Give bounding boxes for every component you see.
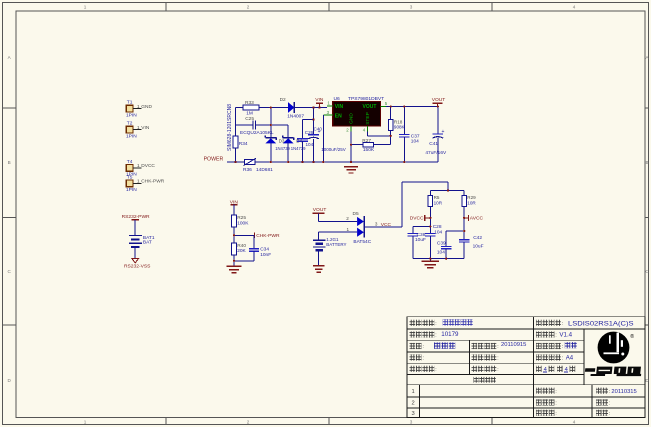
svg-text:1M: 1M: [246, 111, 253, 117]
svg-text::: :: [497, 356, 498, 362]
svg-text:3: 3: [410, 419, 413, 424]
svg-text:2: 2: [412, 401, 415, 407]
svg-text::: :: [435, 367, 436, 373]
svg-text:1: 1: [137, 104, 140, 109]
svg-text:B: B: [8, 160, 11, 165]
svg-text:VCC: VCC: [381, 222, 392, 228]
svg-text:150K: 150K: [363, 147, 375, 153]
ground: [422, 259, 439, 268]
svg-text:3: 3: [410, 4, 413, 9]
resistor R29 10R: [462, 191, 477, 207]
svg-text:VIN: VIN: [315, 97, 324, 103]
power port RS232-PWR: [122, 214, 150, 220]
pin 1: [327, 101, 333, 106]
diode D2: [280, 97, 305, 120]
svg-text:C: C: [8, 269, 12, 274]
battery BAT1: [129, 235, 155, 247]
svg-text:C42: C42: [473, 235, 482, 241]
svg-text:SIM628-1201SRCN8: SIM628-1201SRCN8: [227, 104, 233, 151]
ground: [227, 261, 242, 273]
wire: [134, 220, 136, 235]
svg-text:BAT: BAT: [143, 240, 152, 246]
svg-text:+: +: [442, 129, 445, 135]
svg-text::: :: [609, 411, 610, 417]
op-amp U6 TPS79801DBVT: [333, 96, 384, 126]
svg-text:1: 1: [137, 163, 140, 168]
capacitor C34 10nF: [249, 235, 271, 260]
battery G1 1.2G1 BATTERY: [313, 232, 346, 265]
node CHK-PWR: [254, 233, 280, 240]
power port VOUT lower: [313, 207, 327, 221]
svg-text:10179: 10179: [441, 331, 459, 338]
svg-text:CHK-PWR: CHK-PWR: [141, 179, 164, 185]
svg-text:104: 104: [306, 142, 314, 147]
svg-text:U6: U6: [334, 96, 341, 102]
svg-text:C38: C38: [417, 232, 426, 238]
svg-text:1: 1: [84, 419, 87, 424]
svg-text:R36: R36: [243, 167, 252, 173]
wire bottom rail dvcc: [413, 258, 464, 260]
svg-text:R40: R40: [237, 243, 246, 249]
wire EN to ground rail: [322, 115, 324, 162]
svg-text:GND: GND: [141, 104, 152, 110]
capacitor C26: [297, 120, 313, 163]
wire: [234, 227, 254, 243]
svg-text:A: A: [8, 55, 12, 60]
test point T4: [126, 159, 155, 178]
svg-text:C28: C28: [433, 224, 442, 230]
svg-text:1: 1: [137, 125, 140, 130]
svg-text:2: 2: [247, 4, 250, 9]
svg-text:1PIN: 1PIN: [126, 134, 137, 140]
svg-text::: :: [555, 401, 556, 407]
power port VIN lower: [230, 199, 239, 215]
svg-text:CHK-PWR: CHK-PWR: [256, 233, 280, 239]
svg-text:®: ®: [630, 333, 634, 340]
zener diode D3 1N4739: [265, 135, 290, 162]
svg-text:AVCC: AVCC: [470, 216, 484, 222]
node DVCC: [410, 206, 431, 233]
svg-text:104: 104: [434, 229, 442, 235]
svg-text:VIN: VIN: [141, 125, 150, 131]
svg-text:100K: 100K: [237, 220, 249, 226]
svg-text:C41: C41: [429, 141, 438, 147]
pin 3: [323, 110, 333, 115]
svg-text:POWER: POWER: [204, 156, 224, 162]
junction dots power section: [234, 105, 439, 163]
resistor R34: [233, 136, 248, 148]
svg-text:14D681: 14D681: [256, 167, 273, 173]
logo: [584, 332, 651, 377]
resistor R40 20K: [232, 243, 247, 255]
svg-text:1000uF/25V: 1000uF/25V: [321, 147, 346, 152]
svg-text::: :: [555, 411, 556, 417]
svg-text:VOUT: VOUT: [432, 97, 446, 103]
resistor R5 10R: [428, 191, 443, 207]
svg-text:10uF: 10uF: [415, 237, 426, 243]
wire pin1 of D5: [319, 227, 357, 232]
svg-text:1PIN: 1PIN: [126, 112, 137, 118]
svg-text:R25: R25: [237, 215, 246, 221]
svg-text::: :: [609, 389, 610, 395]
svg-text:C37: C37: [411, 133, 420, 139]
ground: [344, 167, 358, 173]
pin 4: [363, 126, 368, 133]
power port RS232-VSS: [124, 259, 151, 270]
wire: [234, 255, 254, 261]
svg-text:1PIN: 1PIN: [126, 187, 137, 193]
svg-text:+: +: [318, 129, 321, 135]
svg-text:TPS79801DBVT: TPS79801DBVT: [348, 96, 384, 102]
svg-text:STEP: STEP: [365, 112, 371, 125]
svg-text:4: 4: [573, 4, 576, 9]
svg-text::: :: [497, 367, 498, 373]
svg-text:10nF: 10nF: [260, 252, 271, 258]
svg-text:4: 4: [363, 128, 366, 133]
svg-text:VIN: VIN: [335, 104, 344, 110]
svg-text:A4: A4: [566, 356, 574, 362]
diode D5 BAT54C: [353, 211, 372, 245]
svg-text::: :: [609, 401, 610, 407]
svg-text:D5: D5: [353, 211, 359, 217]
svg-text:104: 104: [437, 249, 445, 255]
pin 2: [346, 126, 351, 133]
svg-text:BATTERY: BATTERY: [326, 242, 346, 247]
label ECQU2A105KL: [240, 130, 274, 136]
power port VOUT: [432, 97, 446, 107]
svg-text::: :: [423, 356, 424, 362]
svg-text:LSDIS02RS1A(C)S: LSDIS02RS1A(C)S: [568, 320, 634, 327]
pin 5: [380, 101, 387, 106]
svg-text:10uF: 10uF: [473, 244, 484, 250]
ground: [313, 266, 324, 272]
node AVCC: [464, 206, 483, 239]
power port POWER: [204, 156, 224, 162]
wire pin3 VCC: [364, 182, 448, 228]
svg-text:R34: R34: [239, 141, 248, 147]
svg-text:2: 2: [247, 419, 250, 424]
wire pin2 of D5: [319, 216, 358, 221]
wire VOUT rail: [386, 106, 438, 108]
title block text: [410, 319, 637, 417]
resistor R18 908K: [388, 107, 405, 131]
svg-text::: :: [562, 321, 563, 327]
svg-text::: :: [497, 344, 498, 350]
junction dots divider: [233, 234, 235, 262]
test point T5: [126, 174, 165, 193]
svg-text:GND: GND: [348, 113, 354, 124]
svg-text:20110915: 20110915: [501, 342, 526, 348]
transformer module SIM628-1201SRCN8: [227, 104, 233, 151]
svg-text:1N4739: 1N4739: [291, 146, 306, 151]
zener diode D4 1N4739: [283, 135, 306, 162]
svg-text:3: 3: [412, 411, 415, 417]
wire left rail: [235, 108, 237, 163]
svg-text:R29: R29: [467, 195, 476, 200]
svg-text:BAT54C: BAT54C: [353, 239, 371, 245]
svg-text:RS232-VSS: RS232-VSS: [124, 263, 151, 269]
power port VIN: [315, 97, 324, 108]
title block: [407, 317, 645, 418]
svg-text::: :: [555, 389, 556, 395]
svg-text:10R: 10R: [467, 201, 476, 206]
svg-text:VOUT: VOUT: [313, 207, 327, 213]
svg-text:VOUT: VOUT: [363, 104, 377, 110]
svg-text:4: 4: [573, 419, 576, 424]
test point T2: [126, 121, 150, 140]
svg-text:5: 5: [385, 101, 388, 106]
svg-text:2: 2: [346, 216, 349, 221]
svg-text:1: 1: [412, 389, 415, 395]
capacitor C25: [236, 116, 271, 130]
capacitor C39 104: [437, 231, 464, 259]
svg-text:C25: C25: [245, 116, 254, 122]
capacitor C37 104: [399, 107, 420, 162]
svg-text::: :: [435, 321, 436, 327]
svg-text:1N4007: 1N4007: [287, 114, 304, 120]
svg-text:C34: C34: [260, 247, 269, 253]
svg-text:1: 1: [137, 179, 140, 184]
capacitor C42 10uF: [459, 235, 484, 259]
svg-text:47uF/16V: 47uF/16V: [425, 150, 447, 156]
capacitor C38 10uF: [408, 227, 431, 259]
svg-text:R27: R27: [362, 138, 371, 144]
svg-text::: :: [562, 344, 563, 350]
svg-text:EN: EN: [335, 114, 342, 120]
svg-text:ECQU2A105KL: ECQU2A105KL: [240, 130, 274, 136]
svg-text:20110315: 20110315: [611, 389, 636, 395]
wire VCC top rail: [430, 190, 464, 192]
svg-text:DVCC: DVCC: [141, 163, 155, 169]
svg-text:DVCC: DVCC: [410, 216, 424, 222]
svg-text:3: 3: [327, 110, 330, 115]
svg-text:B: B: [645, 160, 648, 165]
svg-text:D2: D2: [280, 97, 286, 103]
svg-text:C39: C39: [437, 241, 446, 247]
resistor R33: [243, 100, 259, 117]
wire bottom rail: [227, 161, 438, 163]
svg-text::: :: [555, 333, 556, 339]
capacitor C28 104: [425, 224, 443, 259]
svg-text::: :: [423, 344, 424, 350]
svg-text:20K: 20K: [237, 248, 246, 254]
svg-text::: :: [435, 333, 436, 339]
svg-text:R33: R33: [245, 100, 254, 106]
resistor R27 150K: [351, 138, 375, 153]
wire top rail: [236, 107, 327, 109]
junction dots dvcc: [429, 189, 465, 260]
svg-text:2: 2: [346, 128, 349, 133]
wire zener top link: [271, 108, 288, 138]
svg-text:R5: R5: [434, 195, 440, 200]
wire: [134, 248, 136, 258]
svg-text:V1.4: V1.4: [559, 332, 572, 339]
svg-text:3: 3: [375, 222, 378, 227]
capacitor C40 1000uF/25V: [308, 108, 346, 163]
svg-text:10R: 10R: [434, 201, 443, 206]
varistor R36: [243, 158, 273, 173]
svg-text:1: 1: [347, 227, 350, 232]
svg-text:104: 104: [411, 139, 419, 145]
resistor R25 100K: [232, 215, 250, 227]
svg-text::: :: [562, 356, 563, 362]
wire FB node: [368, 131, 391, 145]
svg-text:D: D: [8, 378, 12, 383]
test point T1: [126, 100, 152, 119]
svg-text:1: 1: [84, 4, 87, 9]
capacitor C41 47uF/16V: [425, 107, 447, 162]
wire GND pin down: [350, 132, 352, 162]
svg-text:1: 1: [327, 101, 330, 106]
